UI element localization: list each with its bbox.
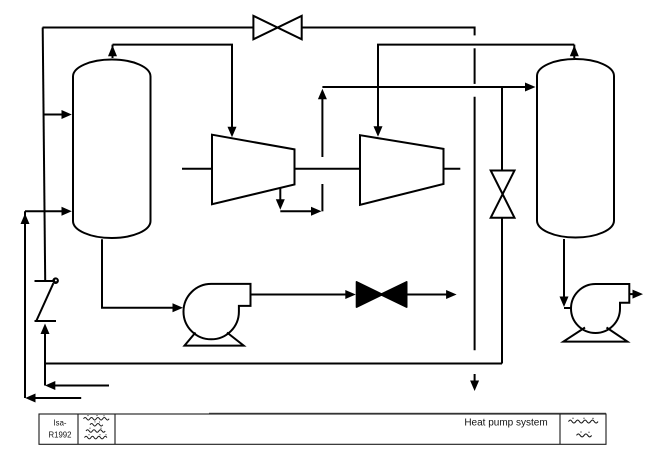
title block frame (39, 414, 606, 444)
wire V2 top to K2 (378, 45, 574, 127)
wire HV3 outlet (407, 294, 447, 296)
shaft segment left (182, 168, 212, 170)
wire bypass downcomer seg3 (474, 97, 476, 350)
wire P1 discharge (251, 294, 347, 296)
wire K1 discharge across (280, 210, 311, 212)
pump P2 base (563, 328, 627, 342)
relief device Z1 (zigzag) (35, 277, 59, 321)
wire left feed to V1 (25, 210, 62, 212)
vessel V2 (right column) (537, 59, 614, 238)
wire V1 upper inlet (43, 114, 63, 116)
vessel V1 (left column) (73, 60, 151, 239)
wire bypass downcomer seg1 (474, 27, 476, 36)
label circuit-desc (arabic) (569, 420, 599, 437)
svg-text:Isa-: Isa- (54, 419, 67, 428)
pump P2 body (571, 284, 629, 333)
wire top bypass left (43, 27, 254, 29)
svg-text:Heat pump system: Heat pump system (464, 418, 547, 429)
wire interstage riser lower (321, 184, 323, 211)
wire below relief (44, 333, 46, 386)
compressor K2 (right trapezoid) (360, 135, 444, 205)
pump P1 body (183, 284, 250, 339)
wire feed inlet bottom (28, 397, 81, 399)
border edge line (209, 412, 606, 414)
wire P2 suction stub (564, 307, 572, 309)
pump P1 base (185, 333, 244, 346)
compressor K1 (left trapezoid) (212, 135, 295, 205)
valve HV1 (top bypass, open bowtie) (253, 16, 301, 40)
wire to V2 side inlet (322, 86, 526, 88)
shaft segment right (444, 168, 461, 170)
wire bypass outfall arrow (474, 374, 476, 382)
wire P2 discharge (629, 293, 634, 295)
wire V2 bottom to P2 (563, 239, 565, 297)
shaft segment middle (295, 168, 361, 170)
svg-text:R1992: R1992 (49, 430, 72, 439)
wire top bypass right (302, 27, 475, 29)
wire V1 top outlet (112, 45, 114, 58)
wire V1 bottom to P1 (102, 239, 173, 307)
wire return inlet (48, 385, 109, 387)
wire valve drop lower (501, 218, 503, 364)
wire left riser A (43, 28, 46, 281)
wire bottom return (45, 363, 502, 365)
wire V2 top outlet (573, 45, 575, 58)
wire left feed riser (24, 211, 26, 398)
wire valve drop upper (501, 87, 503, 171)
label drawing-info (arabic) (84, 418, 110, 439)
wire V1 top to K1 (113, 45, 233, 128)
wire K1 discharge down (279, 189, 281, 201)
wire bypass downcomer seg2 (474, 48, 476, 84)
valve HV3 (closed, filled bowtie) (357, 282, 383, 307)
valve HV2 (vertical, open bowtie) (491, 171, 515, 218)
wire interstage riser upper (321, 99, 323, 157)
